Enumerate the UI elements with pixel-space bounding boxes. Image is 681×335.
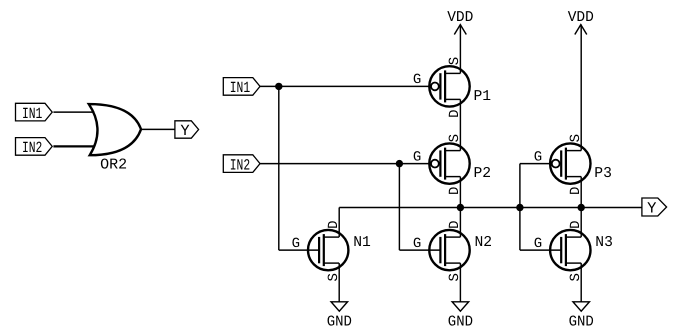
svg-text:D: D: [447, 187, 463, 195]
svg-text:P3: P3: [594, 165, 612, 182]
wire to N1 gate: [279, 249, 319, 251]
wire IN1 to OR gate: [53, 111, 94, 113]
wire P3 drain to node: [580, 177, 582, 208]
wire IN2 to OR gate: [53, 145, 94, 147]
pmos transistor P3: [534, 134, 612, 195]
wire to P3 gate: [520, 163, 552, 165]
wire P1 drain to P2 source: [459, 99, 461, 150]
svg-text:S: S: [447, 273, 463, 281]
wire VDD to P3 source: [580, 25, 582, 151]
svg-text:VDD: VDD: [447, 9, 473, 26]
wire node to P3/N3 gates vertical: [519, 164, 521, 251]
wire N2 source to GND: [459, 263, 461, 302]
svg-text:N3: N3: [595, 234, 613, 251]
svg-text:G: G: [292, 236, 300, 252]
junction NOR output at N2/P2: [457, 204, 464, 211]
wire IN1 to P1 gate: [260, 85, 431, 87]
or-gate OR2: [89, 104, 141, 174]
junction Y node: [578, 204, 585, 211]
wire to N3 gate: [520, 249, 561, 251]
nmos transistor N3: [534, 220, 613, 281]
wire OR output to Y: [142, 128, 175, 130]
nmos transistor N1: [292, 220, 371, 281]
wire to N2 gate: [399, 249, 440, 251]
wire N3 source to GND: [580, 263, 582, 302]
svg-text:GND: GND: [569, 313, 594, 330]
junction IN1 node: [275, 83, 282, 90]
ground (N3 column): [569, 302, 594, 331]
svg-text:G: G: [413, 149, 421, 165]
svg-text:VDD: VDD: [568, 9, 594, 26]
wire node to N3 drain: [580, 208, 582, 238]
svg-text:G: G: [534, 236, 542, 252]
svg-text:IN1: IN1: [230, 79, 250, 97]
wire N1 drain to node: [338, 208, 340, 238]
output pin Y: [642, 198, 667, 218]
svg-text:IN2: IN2: [22, 139, 42, 157]
svg-text:D: D: [326, 220, 342, 228]
svg-text:G: G: [413, 236, 421, 252]
svg-text:D: D: [447, 109, 463, 117]
ground (N2 column): [448, 302, 473, 331]
svg-text:Y: Y: [180, 122, 190, 140]
nmos transistor N2: [413, 220, 492, 281]
svg-text:Y: Y: [647, 200, 657, 218]
wire IN2 vertical to N2 gate: [398, 164, 400, 251]
svg-text:P1: P1: [474, 88, 492, 105]
svg-text:D: D: [568, 187, 584, 195]
input pin IN1 (gate symbol): [16, 103, 53, 123]
power symbol VDD (P3 column): [568, 9, 594, 34]
svg-text:D: D: [447, 220, 463, 228]
pmos transistor P1: [413, 57, 491, 118]
svg-text:D: D: [568, 220, 584, 228]
output pin Y (gate symbol): [175, 121, 199, 140]
junction NOR output at inverter gate: [516, 204, 523, 211]
pmos transistor P2: [413, 134, 491, 195]
input pin IN2: [223, 155, 260, 175]
input pin IN1: [223, 78, 260, 98]
power symbol VDD (P1 column): [447, 9, 473, 34]
svg-text:GND: GND: [327, 313, 352, 330]
junction IN2 node: [396, 160, 403, 167]
wire IN2 to P2 gate: [260, 163, 431, 165]
svg-text:IN1: IN1: [22, 105, 42, 123]
ground (N1 column): [327, 302, 352, 331]
svg-text:P2: P2: [474, 165, 492, 182]
wire VDD to P1 source: [459, 25, 461, 74]
svg-text:S: S: [447, 57, 463, 65]
input pin IN2 (gate symbol): [16, 138, 53, 158]
svg-text:G: G: [534, 149, 542, 165]
wire output node horizontal: [339, 207, 642, 209]
svg-text:N1: N1: [353, 234, 371, 251]
svg-text:S: S: [568, 134, 584, 142]
wire N1 source to GND: [338, 263, 340, 302]
svg-text:IN2: IN2: [230, 156, 250, 174]
svg-text:OR2: OR2: [100, 157, 127, 174]
svg-text:N2: N2: [475, 234, 493, 251]
svg-text:G: G: [413, 72, 421, 88]
svg-text:S: S: [447, 134, 463, 142]
svg-text:S: S: [568, 273, 584, 281]
wire IN1 vertical to N1 gate: [278, 86, 280, 250]
svg-text:S: S: [326, 273, 342, 281]
svg-text:GND: GND: [448, 313, 473, 330]
wire P2 drain to node and N2 drain: [459, 177, 461, 238]
